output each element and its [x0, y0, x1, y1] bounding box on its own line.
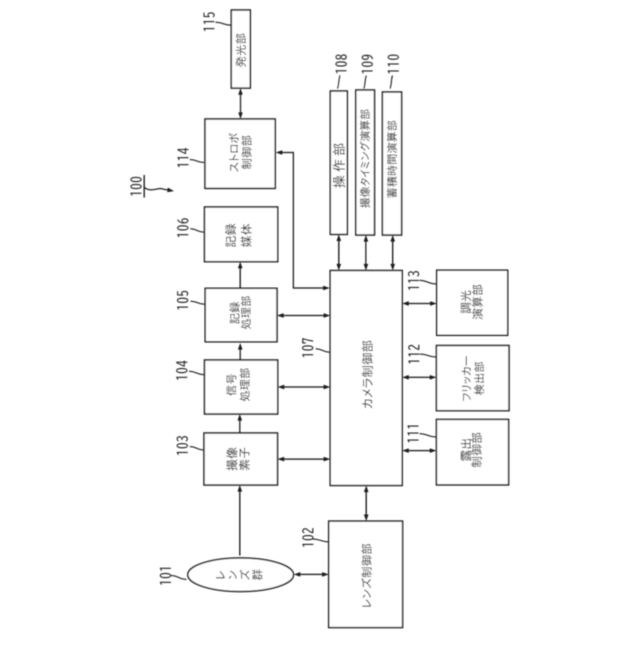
block 104 text [226, 368, 250, 401]
wire record proc to record media arrow [239, 267, 241, 288]
block 107 text [362, 341, 373, 409]
label 110 [388, 55, 399, 74]
wire camera ctrl to dimming calc double arrow [408, 303, 431, 305]
block 102 box レンズ制御部 [329, 521, 403, 628]
label 114 [178, 148, 189, 167]
label 115 [203, 12, 214, 31]
label 103 [177, 436, 188, 455]
block 110 box 蓄積時間演算部 [382, 92, 401, 235]
block 103 text [226, 447, 250, 470]
label 109 [362, 55, 373, 74]
block 110 text [387, 121, 397, 198]
leader 103 [190, 447, 204, 451]
wire image sensor to camera ctrl double arrow [283, 458, 325, 460]
wire lens group to image sensor arrow [239, 491, 241, 556]
label 108 [335, 54, 346, 73]
label 101 [160, 568, 171, 585]
label 112 [408, 345, 419, 364]
leader 109 [364, 76, 367, 89]
leader 113 [420, 280, 437, 284]
block 113 box 調光演算部 [437, 270, 508, 335]
label 100 underline [143, 175, 145, 198]
block 115 box 発光部 [231, 10, 250, 88]
block 109 text [360, 110, 370, 208]
block 111 text [461, 433, 482, 468]
leader 107 [316, 349, 330, 353]
block 102 text [361, 544, 371, 607]
leader 112 [420, 354, 436, 357]
leader 110 [390, 76, 393, 89]
block 114 text [229, 133, 252, 172]
leader 101 [171, 575, 187, 579]
label 105 [177, 291, 188, 310]
block 114 box ストロボ制御部 [205, 119, 275, 188]
wire camera ctrl to exposure ctrl double arrow [408, 450, 431, 452]
leader 108 [337, 76, 340, 89]
leader 111 [420, 434, 437, 437]
block 106 text [225, 224, 252, 247]
block 104 box 信号処理部 [205, 360, 278, 414]
wire camera ctrl to imaging timing calc double arrow [365, 241, 367, 265]
wire strobe ctrl to camera ctrl elbow double arrow [281, 153, 325, 289]
leader 106 [190, 229, 204, 233]
leader 114 [190, 160, 204, 163]
label 100 [130, 177, 141, 196]
block 101 lens group ellipse [188, 558, 294, 592]
label 113 [408, 271, 419, 290]
block 112 text [462, 356, 484, 401]
wire strobe ctrl to light unit double arrow [240, 94, 242, 114]
leader 104 [189, 371, 204, 375]
block 105 text [229, 296, 251, 329]
block 107 box カメラ制御部 [330, 271, 402, 486]
wire camera ctrl to flicker detect double arrow [408, 376, 431, 378]
wire lens group to lens ctrl double arrow [299, 573, 323, 575]
block 103 box 撮像素子 [204, 433, 278, 485]
wire signal proc to camera ctrl double arrow [283, 386, 324, 388]
wire lens ctrl to camera ctrl double arrow [365, 491, 367, 515]
label 111 [408, 425, 419, 442]
block 112 box フリッカー検出部 [436, 346, 509, 411]
block 105 box 記録処理部 [205, 288, 277, 342]
label 106 [177, 218, 188, 237]
leader 105 [191, 301, 205, 304]
block 111 box 露出制御部 [436, 419, 508, 485]
label 107 [302, 338, 313, 357]
label 100 squiggle arrow [145, 188, 169, 190]
label 102 [302, 528, 313, 547]
leader 102 [313, 539, 330, 542]
block 106 box 記録媒体 [205, 207, 278, 262]
block 101 label text レンズ群 [216, 569, 262, 580]
block 115 text [236, 34, 246, 67]
leader 115 [216, 22, 232, 25]
wire record proc to camera ctrl double arrow [283, 315, 325, 317]
block 108 box 操作部 [330, 91, 347, 234]
wire camera ctrl to operation unit double arrow [338, 240, 340, 265]
wire signal proc to record proc arrow [239, 349, 241, 360]
block 113 text [461, 285, 483, 319]
block 109 box 撮像タイミング演算部 [356, 90, 375, 235]
wire camera ctrl to accumulation time calc double arrow [392, 241, 394, 265]
block 108 text [333, 144, 345, 188]
wire image sensor to signal proc arrow [239, 420, 241, 433]
label 104 [176, 361, 187, 380]
